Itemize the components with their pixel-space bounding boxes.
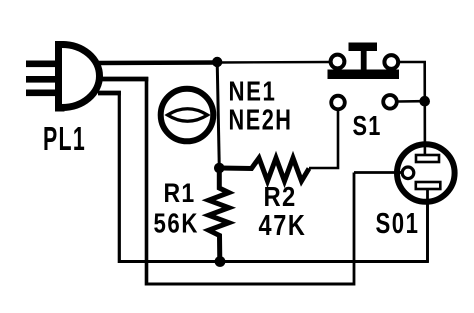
- svg-text:S1: S1: [353, 110, 382, 141]
- wire S1 lower-right contact to junction: [398, 100, 422, 103]
- switch S1: [328, 43, 400, 110]
- wire top rail from plug to S1: [96, 62, 331, 63]
- svg-text:S01: S01: [376, 208, 420, 240]
- wire plug middle prong: down, bottom rail, up to SO1 left contact: [100, 77, 402, 286]
- junction node: lamp / R1 / R2: [214, 163, 225, 174]
- svg-text:NE1: NE1: [229, 76, 277, 107]
- neon lamp NE1: [161, 89, 214, 142]
- wire S1 top-right contact to right vertical and down to SO1 top: [400, 62, 425, 155]
- label R2 47K: [259, 181, 307, 242]
- socket SO1: [397, 144, 455, 262]
- resistor R1: [209, 170, 229, 261]
- wire neon lamp vertical (top junction to bottom junction): [217, 62, 219, 168]
- junction node: S1 / SO1 vertical: [419, 96, 430, 107]
- svg-text:56K: 56K: [154, 208, 200, 239]
- plug PL1: [26, 41, 100, 112]
- junction node: top rail / lamp: [212, 57, 222, 67]
- svg-text:R1: R1: [164, 178, 196, 208]
- wire plug lower prong: down, mid rail to SO1 bottom: [98, 91, 428, 263]
- label R1 56K: [154, 178, 200, 239]
- svg-text:47K: 47K: [259, 210, 307, 242]
- junction node: R1 bottom on mid rail: [215, 256, 226, 267]
- wire R2 right end up to S1 lower-left contact: [309, 106, 338, 168]
- svg-text:PL1: PL1: [43, 120, 86, 157]
- resistor R2: [220, 158, 309, 181]
- svg-text:R2: R2: [264, 181, 297, 212]
- label NE1 NE2H: [229, 76, 293, 137]
- svg-text:NE2H: NE2H: [229, 105, 293, 137]
